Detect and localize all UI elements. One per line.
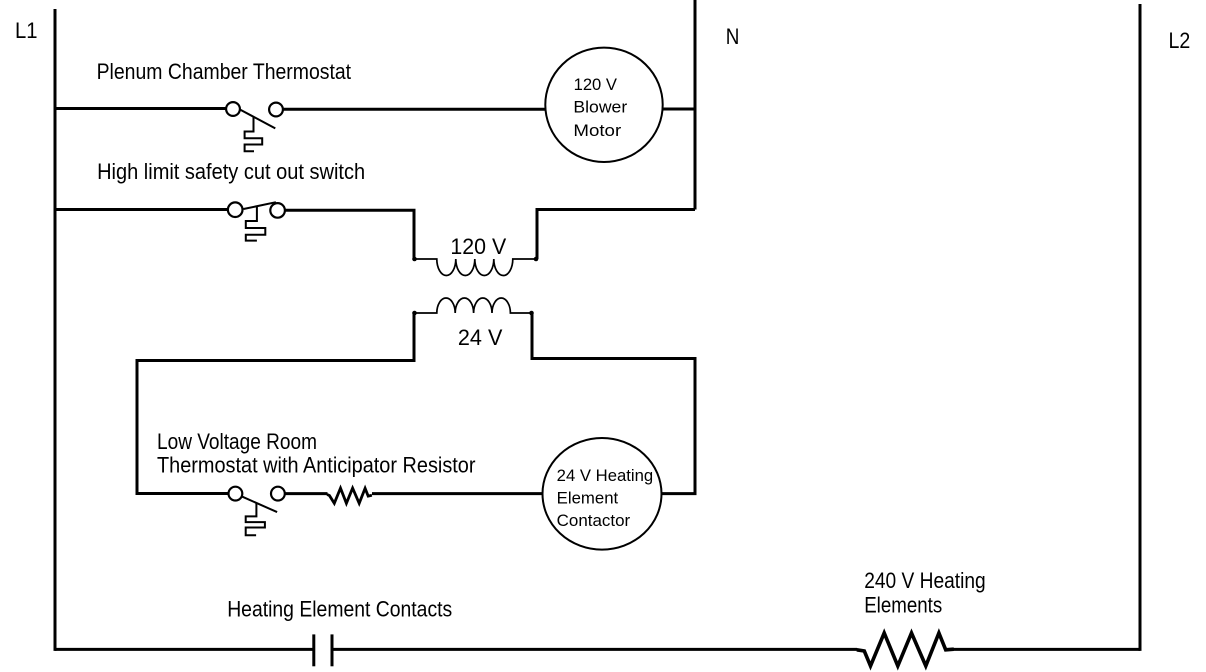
svg-text:Heating Element Contacts: Heating Element Contacts [227,597,452,622]
svg-text:Element: Element [557,490,619,508]
svg-text:Blower: Blower [573,98,627,117]
svg-text:120 V: 120 V [574,75,618,94]
svg-text:N: N [726,24,740,49]
svg-text:High limit safety cut out swit: High limit safety cut out switch [97,159,365,184]
svg-text:Plenum Chamber Thermostat: Plenum Chamber Thermostat [97,59,352,84]
svg-text:L1: L1 [15,18,38,43]
svg-text:240 V Heating: 240 V Heating [864,568,986,593]
svg-text:Motor: Motor [573,121,621,140]
svg-text:24 V: 24 V [458,325,503,350]
svg-text:Contactor: Contactor [557,512,631,530]
svg-text:Low Voltage Room: Low Voltage Room [157,429,317,454]
svg-text:120 V: 120 V [450,234,506,259]
svg-text:L2: L2 [1169,28,1191,53]
svg-text:Elements: Elements [864,593,942,618]
svg-text:24 V Heating: 24 V Heating [557,467,654,485]
svg-text:Thermostat with Anticipator Re: Thermostat with Anticipator Resistor [157,453,476,478]
